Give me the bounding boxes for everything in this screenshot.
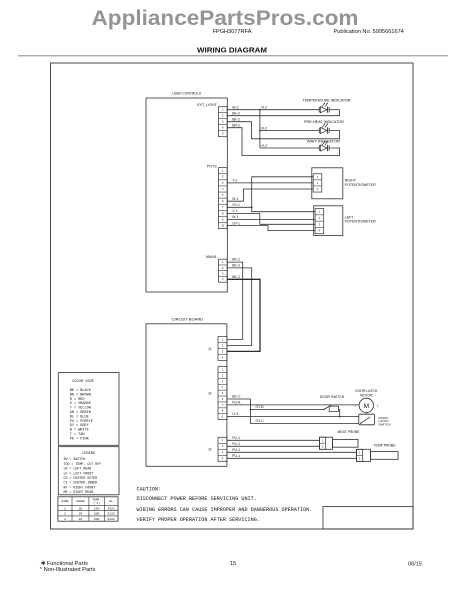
svg-text:R-2: R-2 xyxy=(262,126,268,130)
svg-text:1: 1 xyxy=(222,169,224,173)
svg-text:DISCONNECT POWER BEFORE SERVIC: DISCONNECT POWER BEFORE SERVICING UNIT. xyxy=(137,496,257,502)
svg-text:PK = PINK: PK = PINK xyxy=(70,437,90,441)
svg-text:1: 1 xyxy=(322,438,324,442)
svg-text:WIRING ERRORS CAN CAUSE IMPROP: WIRING ERRORS CAN CAUSE IMPROPER AND DAN… xyxy=(137,507,313,513)
svg-text:4: 4 xyxy=(222,187,224,191)
svg-text:4: 4 xyxy=(222,385,224,389)
svg-text:PU-1: PU-1 xyxy=(232,436,240,440)
svg-text:UL: UL xyxy=(109,500,113,503)
svg-text:W-1: W-1 xyxy=(232,197,238,201)
svg-text:MEAT PROBE: MEAT PROBE xyxy=(338,430,361,434)
svg-text:GY = GREY: GY = GREY xyxy=(70,424,90,428)
svg-text:2: 2 xyxy=(222,266,224,270)
svg-text:9: 9 xyxy=(222,217,224,221)
svg-text:3321: 3321 xyxy=(107,506,115,510)
svg-text:8: 8 xyxy=(222,409,224,413)
svg-text:POTENTIOMETER: POTENTIOMETER xyxy=(345,183,376,187)
svg-text:10: 10 xyxy=(221,224,224,228)
svg-text:4: 4 xyxy=(222,456,224,460)
svg-text:4: 4 xyxy=(319,229,321,233)
svg-text:150: 150 xyxy=(94,506,100,510)
svg-text:TEMP PROBE: TEMP PROBE xyxy=(373,444,396,448)
svg-text:2: 2 xyxy=(222,373,224,377)
svg-text:3: 3 xyxy=(222,450,224,454)
svg-text:R = RED: R = RED xyxy=(70,398,85,402)
svg-text:Y-1: Y-1 xyxy=(232,179,237,183)
svg-text:RR = RIGHT REAR: RR = RIGHT REAR xyxy=(64,490,94,494)
svg-text:LR = LEFT REAR: LR = LEFT REAR xyxy=(64,467,92,471)
svg-text:O = ORANGE: O = ORANGE xyxy=(70,402,91,406)
svg-text:2: 2 xyxy=(317,181,319,185)
svg-text:7: 7 xyxy=(222,205,224,209)
svg-text:O-3: O-3 xyxy=(232,412,238,416)
svg-text:CIRCUIT BOARD: CIRCUIT BOARD xyxy=(172,318,204,322)
svg-text:BK-2: BK-2 xyxy=(232,112,240,116)
svg-text:1: 1 xyxy=(319,210,321,214)
svg-text:EXT_LIGHT: EXT_LIGHT xyxy=(197,103,217,107)
svg-text:1: 1 xyxy=(222,108,224,112)
svg-text:RF = RIGHT FRONT: RF = RIGHT FRONT xyxy=(64,485,96,489)
svg-text:4: 4 xyxy=(222,277,224,281)
svg-text:8: 8 xyxy=(222,211,224,215)
svg-text:2: 2 xyxy=(64,512,66,516)
svg-text:PU-A: PU-A xyxy=(232,401,241,405)
svg-text:7: 7 xyxy=(222,403,224,407)
svg-text:200: 200 xyxy=(94,512,100,516)
svg-text:WIRING DIAGRAM: WIRING DIAGRAM xyxy=(197,48,267,55)
svg-text:3122: 3122 xyxy=(107,512,115,516)
svg-text:TEMPERATURE INDICATOR: TEMPERATURE INDICATOR xyxy=(303,98,351,102)
svg-text:GAUGE: GAUGE xyxy=(76,500,85,503)
svg-text:2: 2 xyxy=(319,216,321,220)
svg-text:W-2: W-2 xyxy=(232,106,238,110)
svg-text:TOD = TEMP. CUT OFF: TOD = TEMP. CUT OFF xyxy=(64,462,102,466)
svg-text:LF = LEFT FRONT: LF = LEFT FRONT xyxy=(64,471,94,475)
svg-text:1: 1 xyxy=(317,175,319,179)
svg-text:6: 6 xyxy=(222,397,224,401)
svg-text:1: 1 xyxy=(64,506,66,510)
svg-text:3: 3 xyxy=(222,181,224,185)
svg-text:Publication No. 5995661674: Publication No. 5995661674 xyxy=(334,29,404,35)
svg-text:1: 1 xyxy=(222,438,224,442)
svg-text:W = WHITE: W = WHITE xyxy=(70,429,89,433)
svg-text:W-1: W-1 xyxy=(232,215,238,219)
svg-text:SWITCH: SWITCH xyxy=(378,422,390,426)
svg-text:FPGH3077RFA: FPGH3077RFA xyxy=(213,29,252,35)
svg-text:1: 1 xyxy=(377,404,379,408)
svg-text:5: 5 xyxy=(222,193,224,197)
svg-text:PU = PURPLE: PU = PURPLE xyxy=(70,420,93,424)
svg-text:3: 3 xyxy=(317,187,319,191)
svg-text:PU-1: PU-1 xyxy=(232,454,240,458)
svg-text:USER CONTROLS: USER CONTROLS xyxy=(172,91,201,95)
svg-text:06/15: 06/15 xyxy=(408,561,422,567)
svg-text:PU-1: PU-1 xyxy=(232,448,240,452)
svg-text:1: 1 xyxy=(359,450,361,454)
svg-text:20: 20 xyxy=(79,512,83,516)
svg-text:BK = BLACK: BK = BLACK xyxy=(70,389,92,393)
svg-text:POTENTIOMETER: POTENTIOMETER xyxy=(345,220,376,224)
svg-text:2: 2 xyxy=(222,343,224,347)
svg-text:15: 15 xyxy=(230,561,236,567)
svg-text:* Non-Illustrated Parts: * Non-Illustrated Parts xyxy=(40,567,96,573)
svg-text:200: 200 xyxy=(94,517,100,521)
svg-text:WAIT INDICATOR: WAIT INDICATOR xyxy=(307,140,341,144)
svg-text:WIRE: WIRE xyxy=(61,500,68,503)
svg-text:BR-2: BR-2 xyxy=(232,124,240,128)
svg-text:BR = BROWN: BR = BROWN xyxy=(70,393,91,397)
svg-text:CI = CENTER INNER: CI = CENTER INNER xyxy=(64,481,98,485)
svg-text:SW = SWITCH: SW = SWITCH xyxy=(64,457,86,461)
svg-text:BK-2: BK-2 xyxy=(232,264,240,268)
svg-text:GN = GREEN: GN = GREEN xyxy=(70,411,91,415)
svg-text:Y-1: Y-1 xyxy=(232,209,237,213)
svg-text:9: 9 xyxy=(222,415,224,419)
svg-text:CAUTION:: CAUTION: xyxy=(137,487,162,493)
svg-text:BL = BLUE: BL = BLUE xyxy=(70,415,89,419)
svg-text:R-2: R-2 xyxy=(262,144,268,148)
svg-text:3122: 3122 xyxy=(107,517,115,521)
svg-text:1: 1 xyxy=(222,368,224,372)
svg-text:3: 3 xyxy=(222,349,224,353)
svg-text:BK-2: BK-2 xyxy=(232,118,240,122)
svg-text:BK-2: BK-2 xyxy=(232,258,240,262)
svg-text:2: 2 xyxy=(322,444,324,448)
svg-text:1: 1 xyxy=(222,260,224,264)
svg-text:4: 4 xyxy=(222,355,224,359)
svg-text:BK-C: BK-C xyxy=(232,395,241,399)
svg-text:J1: J1 xyxy=(208,347,212,351)
svg-text:GY-C: GY-C xyxy=(256,419,265,423)
svg-text:T = TAN: T = TAN xyxy=(70,433,85,437)
svg-text:Y = YELLOW: Y = YELLOW xyxy=(70,407,92,411)
svg-text:PU-1: PU-1 xyxy=(232,442,240,446)
svg-text:22: 22 xyxy=(79,517,83,521)
svg-text:5: 5 xyxy=(222,132,224,136)
svg-text:AppliancePartsPros.com: AppliancePartsPros.com xyxy=(92,6,359,30)
svg-text:20: 20 xyxy=(79,506,83,510)
svg-text:POTS: POTS xyxy=(207,164,217,168)
svg-text:M: M xyxy=(364,403,369,410)
svg-text:4: 4 xyxy=(222,126,224,130)
svg-text:2: 2 xyxy=(355,404,357,408)
svg-text:GY-1: GY-1 xyxy=(232,221,240,225)
svg-text:R-2: R-2 xyxy=(262,106,268,110)
svg-text:2: 2 xyxy=(222,114,224,118)
svg-text:3: 3 xyxy=(319,222,321,226)
svg-text:6: 6 xyxy=(222,199,224,203)
svg-text:DOOR SWITCH: DOOR SWITCH xyxy=(320,395,345,399)
svg-text:CO = CENTER OUTER: CO = CENTER OUTER xyxy=(64,476,98,480)
svg-text:BK-2: BK-2 xyxy=(232,275,240,279)
svg-text:MAIN1: MAIN1 xyxy=(206,255,217,259)
svg-text:PRE-HEAT INDICATOR: PRE-HEAT INDICATOR xyxy=(304,120,344,124)
svg-text:MOTOR: MOTOR xyxy=(360,393,373,397)
svg-text:J3: J3 xyxy=(208,392,212,396)
svg-text:(°C): (°C) xyxy=(93,501,100,505)
svg-text:2: 2 xyxy=(222,175,224,179)
svg-text:3: 3 xyxy=(222,379,224,383)
svg-text:3: 3 xyxy=(64,517,66,521)
svg-text:1: 1 xyxy=(222,337,224,341)
svg-text:VERIFY PROPER OPERATION AFTER: VERIFY PROPER OPERATION AFTER SERVICING. xyxy=(137,517,260,523)
svg-text:GY-1: GY-1 xyxy=(232,203,240,207)
svg-text:2: 2 xyxy=(222,444,224,448)
svg-text:GY-B: GY-B xyxy=(256,405,265,409)
svg-text:LEGEND: LEGEND xyxy=(82,452,95,456)
svg-text:2: 2 xyxy=(359,456,361,460)
svg-text:3: 3 xyxy=(222,120,224,124)
svg-text:5: 5 xyxy=(222,391,224,395)
svg-text:COLOR CODE: COLOR CODE xyxy=(72,380,94,384)
svg-text:3: 3 xyxy=(222,272,224,276)
svg-text:J2: J2 xyxy=(208,448,212,452)
